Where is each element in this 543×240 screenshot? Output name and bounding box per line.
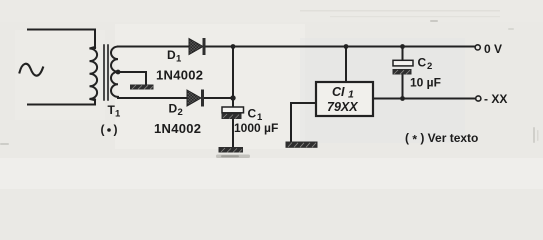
svg-text:1000 µF: 1000 µF xyxy=(234,121,278,135)
wire primary top xyxy=(28,30,95,49)
wire C1 to ground xyxy=(232,119,234,148)
svg-text:2: 2 xyxy=(178,107,183,118)
wire primary bottom xyxy=(28,100,95,105)
svg-text:D: D xyxy=(169,102,178,116)
svg-text:2: 2 xyxy=(427,61,432,72)
diode D1 xyxy=(189,38,206,55)
wire D2 to junction xyxy=(204,97,233,99)
svg-text:10 µF: 10 µF xyxy=(410,76,441,90)
svg-text:0 V: 0 V xyxy=(484,42,502,56)
wire CI1 left pin to ground xyxy=(291,103,316,142)
AC source xyxy=(20,64,44,76)
wire CI1 output to -XX xyxy=(373,98,475,100)
wire top rail xyxy=(205,46,474,48)
svg-text:1: 1 xyxy=(176,54,182,65)
capacitor C1 xyxy=(222,107,244,119)
ground center tap xyxy=(130,85,154,90)
wire rail to CI1 top xyxy=(345,47,347,83)
ground below C1 xyxy=(219,147,244,153)
node junction C2 / output xyxy=(400,96,405,101)
svg-text:1: 1 xyxy=(348,89,354,101)
svg-text:1N4002: 1N4002 xyxy=(154,121,201,136)
wire C2 top xyxy=(402,47,404,61)
svg-text:): ) xyxy=(114,123,118,137)
diode D2 xyxy=(187,90,204,107)
transformer core xyxy=(104,45,108,100)
svg-text:(: ( xyxy=(101,123,105,137)
node junction rail / C2 xyxy=(400,44,405,49)
svg-text:CI: CI xyxy=(332,85,345,99)
svg-text:D: D xyxy=(167,48,176,62)
scan smudge under C1 ground xyxy=(216,155,250,159)
wire secondary bottom to D2 xyxy=(118,97,187,99)
node center tap xyxy=(116,70,121,75)
transformer T1 primary winding xyxy=(90,47,98,100)
node junction D2 / C1 xyxy=(230,95,235,100)
transformer secondary winding xyxy=(111,47,118,99)
terminal -XX xyxy=(476,96,481,101)
svg-text:79XX: 79XX xyxy=(327,100,358,114)
wire C2 bottom xyxy=(402,75,404,99)
svg-text:1: 1 xyxy=(115,109,121,120)
svg-text:- XX: - XX xyxy=(484,92,507,106)
svg-text:1N4002: 1N4002 xyxy=(156,68,203,83)
node junction top rail / C1 link xyxy=(231,44,236,49)
terminal 0V xyxy=(475,45,480,50)
wire vertical link D1/D2 to C1 xyxy=(232,47,234,108)
capacitor C2 xyxy=(393,60,414,74)
svg-text:( * ) Ver texto: ( * ) Ver texto xyxy=(405,131,478,147)
node junction rail / CI1 xyxy=(344,44,349,49)
ground below CI1 xyxy=(286,142,318,148)
wire secondary top to D1 xyxy=(118,46,189,48)
wire center tap to ground xyxy=(118,72,146,84)
svg-text:C: C xyxy=(418,56,427,70)
regulator IC CI1 79XX xyxy=(316,82,373,116)
svg-text:C: C xyxy=(248,107,257,121)
